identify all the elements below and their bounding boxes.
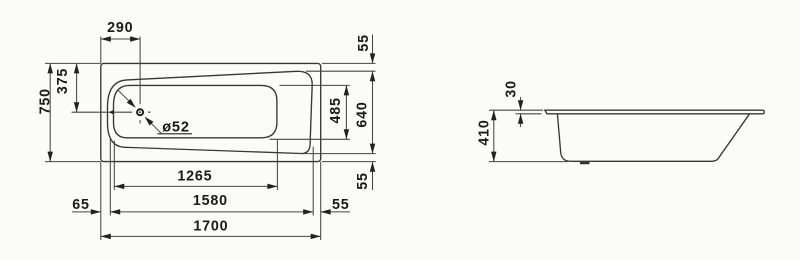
svg-text:410: 410 <box>477 119 493 145</box>
dim 55 top extension (rim top edge) <box>322 62 376 64</box>
arrow 55 top (down at rim) <box>370 53 376 63</box>
dim 485 extension top <box>280 84 350 86</box>
dim 1265 extension left <box>113 141 115 191</box>
label ø52 underline <box>158 133 193 135</box>
arrow 30 up (at rim underside) <box>518 114 524 124</box>
arrow 1580 right <box>303 209 313 215</box>
arrow 55 bottom (up at rim) <box>370 162 376 172</box>
drain leader arrow upper <box>127 99 138 110</box>
dim 65 tail <box>72 211 101 213</box>
tub outer rim rectangle <box>101 63 321 161</box>
basin edge tick <box>109 110 113 115</box>
dim 750 line <box>49 63 51 161</box>
svg-text:290: 290 <box>107 20 133 36</box>
arrow 485 bottom <box>344 129 350 139</box>
dim 410 line <box>493 110 495 161</box>
arrow 1700 left <box>101 234 111 240</box>
tub basin outline <box>114 85 277 137</box>
dim 290 extension line right (drain axis) <box>139 37 141 124</box>
dim 750 extension bottom <box>45 161 101 163</box>
dim 375 line <box>76 63 78 112</box>
drain centerline extension <box>72 111 151 113</box>
arrow 55 horizontal (left at rim edge) <box>321 209 331 215</box>
dim 640 extension bottom <box>302 153 376 155</box>
arrow 30 down (at rim top) <box>518 100 524 110</box>
drain center mark <box>139 111 141 113</box>
drain leader arrow lower <box>143 115 154 126</box>
arrow 640 top <box>370 71 376 81</box>
dim 410 bottom extension (tub bottom) <box>489 161 568 163</box>
svg-text:65: 65 <box>72 197 90 213</box>
dim 1580 extension right <box>312 147 314 216</box>
svg-text:30: 30 <box>504 80 520 98</box>
svg-text:750: 750 <box>37 88 53 114</box>
dim 1580 extension left <box>109 139 111 216</box>
dim 485 line <box>345 85 347 139</box>
dim 1700 extension left <box>100 162 102 240</box>
dim 30 lower tail <box>520 114 522 127</box>
side view drain fitting <box>580 162 590 164</box>
dim 55 bottom-right extension (rim bottom edge) <box>322 161 376 163</box>
dim 640 line <box>372 71 374 153</box>
dim 1700 line <box>101 235 321 237</box>
dim 55 bottom horizontal tail <box>321 211 350 213</box>
side view dimensions <box>489 97 568 162</box>
dim 30 upper tail <box>520 97 522 110</box>
svg-text:55: 55 <box>332 197 350 213</box>
svg-text:55: 55 <box>355 172 371 190</box>
arrow 290 right <box>130 36 140 42</box>
tub rim inner edge (tapered outline) <box>108 71 313 153</box>
svg-text:55: 55 <box>356 34 372 52</box>
arrow 1265 right <box>267 184 277 190</box>
arrow 1700 right <box>311 234 321 240</box>
dim 1700 extension right <box>320 162 322 240</box>
dim 485 extension bottom <box>270 138 350 140</box>
arrow 375 top <box>74 63 80 73</box>
drain halo <box>132 104 148 120</box>
arrow 290 left <box>101 36 111 42</box>
dim 30/410 top extension (rim top) <box>489 109 543 111</box>
dim 1265 extension right <box>276 140 278 191</box>
arrow 1580 left <box>110 209 120 215</box>
dim 55 top tail <box>372 35 374 64</box>
side view body left wall and bottom <box>557 114 749 162</box>
arrow 750 bottom <box>47 152 53 162</box>
svg-text:640: 640 <box>355 101 371 127</box>
dim 290 extension line left <box>100 37 102 64</box>
dim 30 bottom extension (rim underside) <box>516 113 542 115</box>
svg-text:485: 485 <box>328 97 344 123</box>
arrow 375 bottom <box>74 102 80 112</box>
svg-text:1580: 1580 <box>193 193 228 209</box>
drain ring <box>137 109 143 115</box>
arrow 485 top <box>344 85 350 95</box>
arrow 750 top <box>47 63 53 73</box>
svg-text:1265: 1265 <box>177 168 212 184</box>
arrow 1265 left <box>114 184 124 190</box>
dim 290 line <box>101 38 140 40</box>
dim 750 extension top <box>45 62 101 64</box>
arrow 640 bottom <box>370 144 376 154</box>
svg-text:375: 375 <box>55 68 71 94</box>
side view rim bar <box>545 110 764 114</box>
svg-text:ø52: ø52 <box>162 120 190 136</box>
dim 640 extension top <box>306 70 376 72</box>
drain leader line <box>117 90 161 134</box>
arrow 410 top <box>491 110 497 120</box>
dim 55 bottom tail <box>372 162 374 190</box>
arrow 410 bottom <box>491 152 497 162</box>
svg-text:1700: 1700 <box>193 219 228 235</box>
arrow 65 (right at rim edge) <box>91 209 101 215</box>
dim 1265 line <box>114 185 277 187</box>
dim 1580 line <box>110 211 313 213</box>
